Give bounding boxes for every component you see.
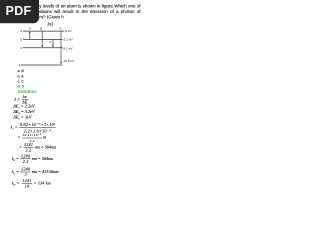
level 3 line (-9.2 eV) [23,46,63,49]
arrowhead B down [41,46,43,48]
level 1 line (0 eV) [23,30,63,33]
math line 3 [13,109,34,114]
transition arrow A (up) [28,33,31,40]
math line 7 [19,143,56,154]
arrowhead C down [52,46,54,48]
math line 10 [12,178,51,189]
transition arrow C (down) [52,39,55,46]
level 2 line (-2.2 eV) [23,38,63,41]
svg-text:B: B [40,26,42,30]
options [18,68,25,89]
svg-text:-0.8 eV: -0.8 eV [62,29,73,33]
level 4 line (-19.8 eV) [21,64,63,67]
math line 6 [18,132,47,144]
arrowhead A up [29,31,31,33]
svg-text:-9.2 eV: -9.2 eV [63,46,74,50]
svg-text:4: 4 [19,63,21,67]
math line 2 [13,104,34,109]
math line 8 [12,154,53,165]
svg-text:A: A [29,27,32,31]
Solution heading [18,89,37,94]
transition arrow D (down) [60,31,63,63]
svg-text:C: C [49,40,52,44]
transition arrow B (down) [41,31,44,46]
svg-text:1: 1 [20,29,22,33]
question paragraph [2,4,141,27]
arrowhead D down [60,62,62,64]
svg-text:-19.8 eV: -19.8 eV [63,59,76,63]
math line 1: lambda = hc/dE [14,94,28,105]
math line 5: big fraction [11,121,56,134]
svg-text:2: 2 [20,37,22,41]
math line 9 [12,167,59,178]
math line 4 [13,115,31,120]
energy level diagram [0,0,149,198]
PDF badge [0,0,39,23]
svg-text:3: 3 [20,46,22,50]
svg-text:-2.2 eV: -2.2 eV [63,38,74,42]
